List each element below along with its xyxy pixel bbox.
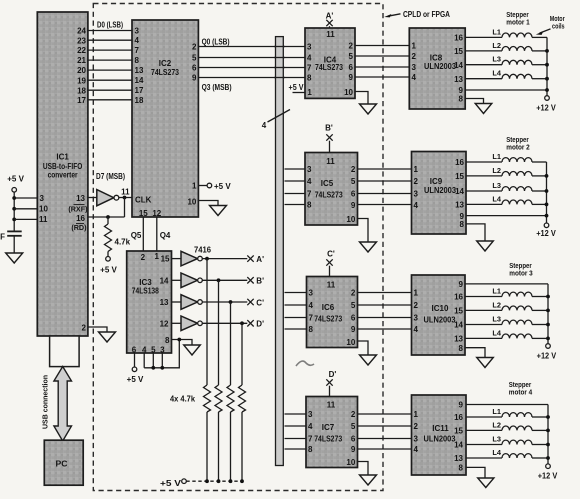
svg-text:7416: 7416 <box>194 246 212 255</box>
IC8 ULN2003 <box>409 28 465 109</box>
svg-text:11: 11 <box>39 215 48 224</box>
IC10 right pins 9,16,15,14,13,8 <box>454 280 463 353</box>
svg-text:4: 4 <box>307 54 312 63</box>
terminal C' above IC6 <box>326 249 335 276</box>
IC5 pin 10 <box>346 215 355 224</box>
node rail3 L1 <box>546 295 550 299</box>
IC10 ULN2003 <box>412 275 466 355</box>
IC2 74LS273 <box>132 20 198 217</box>
coil L1 motor1 <box>465 27 547 37</box>
wire IC7 pin10 to ground <box>358 462 369 476</box>
svg-text:13: 13 <box>454 335 463 344</box>
+12 V terminal motor4 <box>538 464 558 480</box>
wire Q0 crossing bus <box>274 46 285 48</box>
IC7 74LS273 <box>306 397 358 468</box>
wire IC4 pin6 to IC8 pin3 <box>355 66 409 68</box>
wire IC6 pin9 to IC10 pin4 <box>358 328 412 330</box>
motor coils label with arrow <box>536 14 565 35</box>
IC4 74LS273 <box>305 28 355 98</box>
wire IC3 pin15 to inverter A <box>172 258 182 260</box>
+5 V terminal at IC3 pin 6 <box>127 367 144 384</box>
wire IC9 pin8 to ground <box>466 224 485 241</box>
label Q0 (LSB) <box>202 37 230 46</box>
svg-text:15: 15 <box>161 255 170 264</box>
node RC/+5V <box>229 479 233 483</box>
wire IC4 pin2 to IC8 pin1 <box>355 45 409 47</box>
bus wire to IC6 pin8 <box>285 328 307 330</box>
svg-text:13: 13 <box>135 66 144 75</box>
IC5 left pins 3,4,7,8 <box>307 165 312 210</box>
wire IC4 pin9 to IC8 pin4 <box>355 76 409 78</box>
svg-text:+5 V: +5 V <box>160 479 182 488</box>
svg-text:B': B' <box>325 124 333 133</box>
wire IC3 pin12 to inverter D <box>172 322 182 324</box>
USB connection double arrow <box>43 367 72 442</box>
svg-text:11: 11 <box>326 157 335 166</box>
wire IC3 pin14 to inverter B <box>172 279 182 281</box>
svg-text:18: 18 <box>77 86 86 95</box>
svg-text:7: 7 <box>307 64 312 73</box>
stray scan mark <box>296 361 314 366</box>
+12 V terminal motor1 <box>536 96 556 113</box>
ground at IC11 pin 8 <box>478 478 494 488</box>
svg-text:+12 V: +12 V <box>537 352 557 361</box>
svg-text:2: 2 <box>141 253 146 262</box>
svg-text:L2: L2 <box>492 300 501 309</box>
svg-text:13: 13 <box>454 75 463 84</box>
svg-text:D': D' <box>256 320 264 329</box>
wire IC3 pin8 to ground <box>172 340 193 346</box>
wire Q4: IC2 pin12 to IC3 pin1 <box>157 217 171 251</box>
svg-text:D7 (MSB): D7 (MSB) <box>96 172 125 181</box>
svg-text:3: 3 <box>307 43 312 52</box>
label D7 (MSB) <box>96 172 125 181</box>
svg-text:2: 2 <box>414 301 419 310</box>
pull-up resistor RD4 4.7k <box>239 323 246 481</box>
ground at IC2 pin 10 <box>210 206 227 216</box>
svg-text:11: 11 <box>121 188 130 197</box>
svg-text:15: 15 <box>454 47 463 56</box>
IC9 left pins 1,2,3,4 <box>414 165 419 210</box>
svg-text:L2: L2 <box>492 166 501 175</box>
node rail2 L3 <box>545 189 549 193</box>
IC8 right pins 16,15,14,13,9,8 <box>454 34 463 104</box>
wire IC11 pin8 to ground <box>466 467 485 478</box>
svg-text:15: 15 <box>454 307 463 316</box>
svg-text:+5 V: +5 V <box>7 175 24 184</box>
svg-text:L1: L1 <box>492 152 501 161</box>
svg-text:13: 13 <box>454 454 463 463</box>
+12 V terminal motor3 <box>537 344 557 361</box>
svg-text:3: 3 <box>307 165 312 174</box>
svg-text:9: 9 <box>351 325 356 334</box>
resistor 4.7k pull-up on RD <box>105 217 131 257</box>
terminal C' <box>247 298 264 307</box>
+12V rail motor2 <box>546 162 548 223</box>
svg-text:IC9: IC9 <box>430 177 443 186</box>
terminal A' <box>247 255 264 264</box>
wire IC7 pin2 to IC11 pin1 <box>358 413 412 415</box>
svg-text:motor 3: motor 3 <box>509 269 533 278</box>
svg-text:24: 24 <box>77 27 86 36</box>
svg-text:74LS273: 74LS273 <box>151 68 179 77</box>
wire IC5 pin5 to IC9 pin2 <box>358 180 412 182</box>
svg-text:16: 16 <box>454 293 463 302</box>
wire Q2: IC2 pin6 to IC4 pin7 <box>198 67 305 69</box>
svg-text:8: 8 <box>165 336 170 345</box>
svg-text:1: 1 <box>414 410 419 419</box>
svg-text:17: 17 <box>135 86 144 95</box>
svg-text:8: 8 <box>459 95 464 104</box>
svg-text:4: 4 <box>262 121 267 130</box>
IC10 left pins 1,2,3,4 <box>414 289 419 335</box>
svg-text:D': D' <box>329 370 337 379</box>
IC4 pin 11 <box>326 30 335 39</box>
IC5 74LS273 <box>305 153 358 226</box>
svg-text:4: 4 <box>414 325 419 334</box>
bus wire to IC5 pin4 <box>285 180 306 182</box>
svg-text:3: 3 <box>308 410 313 419</box>
svg-text:IC11: IC11 <box>432 424 449 433</box>
bus wire to IC5 pin7 <box>285 193 306 195</box>
ground at IC8 pin 8 <box>475 104 492 114</box>
stepper motor 3 label <box>509 261 533 278</box>
bus wire to IC6 pin7 <box>285 317 307 319</box>
stepper motor 2 label <box>506 135 530 152</box>
wire IC1 pin2 to ground <box>88 327 107 332</box>
wire Q3: IC2 pin9 to IC4 pin8 <box>198 77 305 79</box>
svg-text:IC10: IC10 <box>432 304 449 313</box>
svg-text:13: 13 <box>160 298 169 307</box>
svg-text:L1: L1 <box>492 27 501 36</box>
svg-text:L3: L3 <box>492 435 501 444</box>
svg-text:23: 23 <box>77 36 86 45</box>
svg-text:6: 6 <box>351 314 356 323</box>
node rail2 L2 <box>545 174 549 178</box>
svg-text:L2: L2 <box>492 420 501 429</box>
wire inverter B to terminal B' <box>202 279 247 281</box>
svg-text:8: 8 <box>307 74 312 83</box>
wire Q1: IC2 pin5 to IC4 pin4 <box>198 57 305 59</box>
label D0 (LSB) <box>97 20 123 29</box>
svg-text:3: 3 <box>414 190 419 199</box>
svg-text:4: 4 <box>309 301 314 310</box>
IC2 right pin numbers 2,5,6,9 <box>192 42 197 82</box>
wire IC3 pin5 down <box>152 353 154 368</box>
wire D7: IC1 pin17 to IC2 pin18 <box>88 99 132 101</box>
bus wire to IC7 pin7 <box>285 438 307 440</box>
svg-text:16: 16 <box>454 34 463 43</box>
svg-text:12: 12 <box>160 320 169 329</box>
stepper motor 4 label <box>509 380 533 397</box>
svg-text:4: 4 <box>308 422 313 431</box>
IC3 top pins 2,1 <box>141 252 160 262</box>
wire Q3 crossing bus <box>274 77 285 79</box>
svg-text:9: 9 <box>459 401 464 410</box>
IC11 ULN2003 <box>412 395 467 475</box>
IC11 left pins 1,2,3,4 <box>414 410 419 454</box>
svg-text:1: 1 <box>154 252 159 261</box>
node rail L3 <box>545 63 549 67</box>
wire ground loop pins 4,5,3 to pin 8 <box>144 340 179 368</box>
bus wire to IC5 pin3 <box>285 168 306 170</box>
IC4 pin 10 <box>344 88 353 97</box>
wire D5: IC1 pin19 to IC2 pin14 <box>88 79 132 81</box>
label Q3 (MSB) <box>202 83 232 92</box>
svg-text:2: 2 <box>351 289 356 298</box>
4-bit bus bar <box>276 37 284 466</box>
node rail L4 <box>545 77 549 81</box>
svg-text:7: 7 <box>307 190 312 199</box>
node rail3 L3 <box>546 323 550 327</box>
IC3 right pins 15,14,13,12,8 <box>160 255 170 345</box>
coil L1 motor2 <box>466 152 547 162</box>
svg-text:L4: L4 <box>492 69 502 78</box>
+5 V feed for pull-ups <box>160 479 242 488</box>
svg-text:74LS273: 74LS273 <box>314 434 342 443</box>
svg-text:5: 5 <box>351 422 356 431</box>
svg-text:3: 3 <box>414 314 419 323</box>
IC6 pin 10 <box>346 338 355 347</box>
svg-text:+12 V: +12 V <box>536 104 556 113</box>
svg-text:2: 2 <box>414 422 419 431</box>
wire IC3 pin4 down <box>143 353 145 368</box>
svg-text:L4: L4 <box>492 448 502 457</box>
wire IC5 pin9 to IC9 pin4 <box>358 204 412 206</box>
svg-text:motor 4: motor 4 <box>509 388 533 397</box>
IC2 pin 1 <box>192 182 197 191</box>
IC6 74LS273 <box>307 277 358 348</box>
wire IC6 pin5 to IC10 pin2 <box>358 304 412 306</box>
svg-text:74LS273: 74LS273 <box>314 315 342 324</box>
svg-text:D0 (LSB): D0 (LSB) <box>97 20 123 29</box>
svg-text:4: 4 <box>307 177 312 186</box>
wire IC2 pin1 to +5V <box>198 185 207 187</box>
wire Q2 crossing bus <box>274 67 285 69</box>
svg-text:C': C' <box>256 298 264 307</box>
inverter 7416 B <box>181 273 202 288</box>
svg-text:4: 4 <box>414 445 419 454</box>
svg-text:15: 15 <box>454 427 463 436</box>
wire IC6 pin6 to IC10 pin3 <box>358 317 412 319</box>
+5 V terminal (left rail) <box>7 175 24 193</box>
IC7 pin 11 <box>327 401 336 410</box>
svg-text:motor 1: motor 1 <box>506 18 530 27</box>
wire Q1 crossing bus <box>274 57 285 59</box>
IC1 pin 16 with RD label <box>71 214 87 232</box>
svg-text:Q3 (MSB): Q3 (MSB) <box>202 83 232 92</box>
ground at IC7 pin 10 <box>360 475 377 485</box>
svg-text:Q0 (LSB): Q0 (LSB) <box>202 37 230 46</box>
svg-text:IC3: IC3 <box>139 278 152 287</box>
svg-text:+5 V: +5 V <box>100 266 117 275</box>
svg-text:3: 3 <box>412 63 417 72</box>
svg-text:14: 14 <box>455 187 464 196</box>
CPLD/FPGA dashed boundary box <box>93 4 383 491</box>
svg-text:6: 6 <box>351 435 356 444</box>
svg-text:PC: PC <box>56 459 68 469</box>
svg-text:4: 4 <box>414 201 419 210</box>
svg-text:L1: L1 <box>492 287 501 296</box>
bus width annotation 4 <box>262 110 290 131</box>
svg-text:74LS273: 74LS273 <box>315 190 343 199</box>
svg-text:L3: L3 <box>492 55 501 64</box>
svg-text:3: 3 <box>135 27 140 36</box>
svg-text:USB-to-FIFO: USB-to-FIFO <box>43 162 83 171</box>
svg-text:14: 14 <box>454 321 463 330</box>
bus wire to IC5 pin8 <box>285 204 306 206</box>
svg-text:ULN2003: ULN2003 <box>424 434 457 443</box>
svg-text:14: 14 <box>135 76 144 85</box>
svg-text:9: 9 <box>349 73 354 82</box>
svg-text:4: 4 <box>412 73 417 82</box>
node rail4 L1 <box>546 415 550 419</box>
svg-text:11: 11 <box>327 401 336 410</box>
node RD/+5V <box>240 479 244 483</box>
svg-text:20: 20 <box>77 66 86 75</box>
svg-text:8: 8 <box>459 344 464 353</box>
IC7 left pins 3,4,7,8 <box>308 410 313 454</box>
IC1 left pin numbers 3,10,11 <box>39 194 48 224</box>
svg-text:5: 5 <box>351 301 356 310</box>
svg-text:ULN2003: ULN2003 <box>424 316 457 325</box>
svg-text:A': A' <box>256 255 264 264</box>
ground at IC1 pin 2 <box>99 332 116 342</box>
wire IC7 pin5 to IC11 pin2 <box>358 425 412 427</box>
+5 V terminal below 4.7k resistor <box>100 257 117 275</box>
svg-text:L2: L2 <box>492 41 501 50</box>
wire IC9 pin9 common <box>466 215 547 217</box>
svg-text:74LS273: 74LS273 <box>315 63 343 72</box>
svg-text:16: 16 <box>76 214 85 223</box>
IC7 pin 10 <box>346 458 355 467</box>
svg-text:9: 9 <box>351 201 356 210</box>
wire inverter output to IC2 CLK pin 11 <box>119 197 132 199</box>
svg-text:7: 7 <box>135 46 140 55</box>
USB connector box under IC1 <box>50 336 80 367</box>
wire inverter C to terminal C' <box>202 301 247 303</box>
svg-text:2: 2 <box>351 165 356 174</box>
svg-text:6: 6 <box>192 63 197 72</box>
svg-text:7: 7 <box>309 314 314 323</box>
bus wire to IC7 pin8 <box>285 448 307 450</box>
node pin3 <box>12 196 16 200</box>
svg-text:6: 6 <box>351 190 356 199</box>
node rail4 L2 <box>546 429 550 433</box>
wire Q5: IC2 pin15 to IC3 pin2 <box>131 217 144 251</box>
node rail3 L4 <box>546 337 550 341</box>
svg-text:2: 2 <box>192 42 197 51</box>
PC box <box>44 440 83 485</box>
IC9 ULN2003 <box>412 152 467 235</box>
svg-text:ULN2003: ULN2003 <box>424 186 457 195</box>
node B pull-up <box>217 278 221 282</box>
wire IC7 pin9 to IC11 pin4 <box>358 448 412 450</box>
coil L1 motor4 <box>466 407 548 417</box>
svg-text:3: 3 <box>40 194 45 203</box>
coil L3 motor3 <box>465 315 548 325</box>
svg-text:8: 8 <box>308 445 313 454</box>
svg-text:USB connection: USB connection <box>43 375 50 429</box>
svg-text:L4: L4 <box>492 328 502 337</box>
wire +5V rail down to capacitor <box>13 192 15 231</box>
wire IC3 pin3 down <box>161 353 163 368</box>
svg-text:Q4: Q4 <box>160 231 171 240</box>
coil L2 motor4 <box>466 420 548 430</box>
label CPLD or FPGA <box>384 10 450 19</box>
bus wire to IC6 pin3 <box>285 292 307 294</box>
wire IC2 pin10 to ground <box>198 201 218 206</box>
wire to IC1 pin 10 <box>14 208 37 210</box>
svg-text:1: 1 <box>412 42 417 51</box>
wire IC6 pin10 to ground <box>358 341 369 355</box>
ground at IC6 pin 10 <box>360 355 377 365</box>
node A pull-up <box>205 257 209 261</box>
+12V rail motor4 <box>547 405 549 465</box>
wire inverter A to terminal A' <box>202 258 247 260</box>
IC1 pin 13 with RXF label <box>68 194 88 213</box>
svg-text:8: 8 <box>459 464 464 473</box>
svg-text:2: 2 <box>414 177 419 186</box>
wire D1: IC1 pin23 to IC2 pin4 <box>88 39 132 41</box>
svg-text:3: 3 <box>414 435 419 444</box>
wire IC11 pin9 common (top) <box>466 404 548 406</box>
svg-text:14: 14 <box>454 61 463 70</box>
+12 V terminal motor2 <box>536 223 556 238</box>
svg-text:L3: L3 <box>492 315 501 324</box>
node CLK/RD junction <box>123 196 127 200</box>
IC4 pin 1 and +5V <box>289 83 313 97</box>
coil L4 motor2 <box>466 194 547 204</box>
svg-text:F: F <box>0 233 5 242</box>
svg-text:9: 9 <box>192 73 197 82</box>
coil L3 motor4 <box>466 435 548 445</box>
svg-text:L1: L1 <box>492 407 501 416</box>
IC1 USB-to-FIFO converter <box>37 12 88 336</box>
wire D2: IC1 pin22 to IC2 pin7 <box>88 49 132 51</box>
node pin10 <box>12 207 16 211</box>
svg-text:IC6: IC6 <box>322 303 335 312</box>
inverter 7414 (RXF to CLK) <box>97 190 119 206</box>
svg-text:7: 7 <box>308 435 313 444</box>
svg-text:+5 V: +5 V <box>214 182 231 191</box>
bus wire to IC7 pin4 <box>285 425 307 427</box>
svg-text:L3: L3 <box>492 181 501 190</box>
coil L2 motor2 <box>466 166 547 176</box>
svg-text:+5 V: +5 V <box>289 83 305 92</box>
node pin3/gnd <box>160 366 164 370</box>
svg-text:6: 6 <box>349 63 354 72</box>
IC1 right pin numbers 24-17 <box>77 27 86 105</box>
svg-text:15: 15 <box>139 209 148 218</box>
IC4 right pins 2,5,6,9 <box>349 42 354 83</box>
svg-text:21: 21 <box>77 56 86 65</box>
svg-text:11: 11 <box>327 281 336 290</box>
ground at IC5 pin 10 <box>360 242 377 252</box>
IC9 right pins 16,15,14,13,9,8 <box>455 158 464 229</box>
coil L1 motor3 <box>465 287 548 297</box>
svg-text:14: 14 <box>160 276 169 285</box>
inverter 7416 A <box>181 251 202 266</box>
svg-text:IC5: IC5 <box>321 179 334 188</box>
IC6 left pins 3,4,7,8 <box>309 289 314 335</box>
svg-text:12: 12 <box>152 209 161 218</box>
svg-text:2: 2 <box>349 42 354 51</box>
ground at IC3 pin 8 <box>184 345 201 355</box>
svg-text:IC2: IC2 <box>159 59 172 68</box>
wire IC7 pin6 to IC11 pin3 <box>358 438 412 440</box>
svg-text:Q5: Q5 <box>131 231 142 240</box>
